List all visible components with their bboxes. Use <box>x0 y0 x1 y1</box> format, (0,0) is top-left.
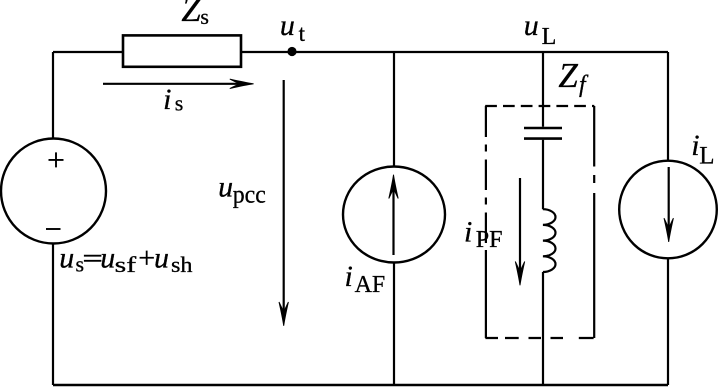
wire left vertical upper <box>52 52 54 140</box>
dashed filter box left <box>485 106 487 338</box>
svg-text:i: i <box>345 260 353 293</box>
polarity minus <box>46 228 61 230</box>
svg-text:Z: Z <box>558 56 578 95</box>
label ut <box>280 9 306 46</box>
label iL <box>691 129 714 170</box>
svg-text:AF: AF <box>355 272 386 298</box>
dashed filter box bottom <box>485 337 593 339</box>
svg-text:u: u <box>100 242 115 275</box>
svg-text:u: u <box>154 242 169 275</box>
arrowhead upcc (down) <box>279 302 288 326</box>
arrowhead iPF (down) <box>515 262 524 286</box>
svg-text:s: s <box>76 251 85 276</box>
svg-text:u: u <box>218 171 233 204</box>
svg-text:pcc: pcc <box>233 182 266 209</box>
svg-text:Z: Z <box>181 0 201 29</box>
label iAF <box>345 260 386 298</box>
arrow shaft iAF <box>392 184 394 255</box>
wire iAF branch upper <box>393 52 395 167</box>
svg-text:L: L <box>542 24 557 50</box>
inductor coil <box>543 209 556 272</box>
arrowhead is (right) <box>230 79 254 88</box>
svg-text:PF: PF <box>476 227 503 253</box>
wire filter branch upper <box>542 52 544 127</box>
svg-text:t: t <box>299 21 306 46</box>
arrow shaft is <box>103 83 245 85</box>
label Zf <box>558 56 589 98</box>
arrow shaft iPF <box>519 178 521 276</box>
svg-text:s: s <box>200 4 209 29</box>
svg-text:i: i <box>163 83 171 116</box>
wire top-left (source to Zs) <box>53 51 123 53</box>
svg-text:u: u <box>280 9 295 42</box>
label us=usf+ush <box>59 242 192 277</box>
arrowhead iAF (up) <box>389 175 398 199</box>
arrow shaft iL <box>668 167 670 233</box>
dashed filter box top <box>485 105 594 107</box>
wire bottom rail <box>53 384 668 387</box>
label upcc <box>218 171 266 209</box>
capacitor plate bottom <box>524 137 562 140</box>
svg-text:i: i <box>464 216 472 249</box>
wire iAF branch lower <box>393 263 395 386</box>
arrow shaft upcc <box>283 80 285 317</box>
wire top-mid (Zs to right corner) <box>241 51 668 53</box>
svg-text:s: s <box>175 91 184 116</box>
svg-text:u: u <box>59 242 74 275</box>
svg-text:sh: sh <box>171 252 193 277</box>
svg-text:+: + <box>138 242 155 275</box>
label iPF <box>464 216 503 254</box>
wire filter branch middle <box>542 140 544 209</box>
wire right vertical lower <box>667 258 669 385</box>
svg-text:u: u <box>524 9 539 42</box>
wire right vertical upper <box>667 52 669 162</box>
current source iAF circle <box>343 167 445 263</box>
svg-text:sf: sf <box>115 252 137 277</box>
svg-text:L: L <box>699 143 714 170</box>
label Zs <box>181 0 209 29</box>
voltage source US circle <box>1 139 106 244</box>
resistor Zs <box>123 35 241 66</box>
capacitor plate top <box>524 127 562 130</box>
wire filter branch lower <box>542 272 544 385</box>
polarity plus <box>49 152 64 167</box>
label uL <box>524 9 556 50</box>
arrowhead iL (down) <box>664 218 673 242</box>
node ut dot <box>287 47 296 56</box>
dashed filter box right <box>593 106 595 338</box>
wire left vertical lower <box>52 244 54 386</box>
svg-text:f: f <box>579 72 589 98</box>
label is <box>163 83 183 116</box>
current source iL circle <box>619 161 717 259</box>
